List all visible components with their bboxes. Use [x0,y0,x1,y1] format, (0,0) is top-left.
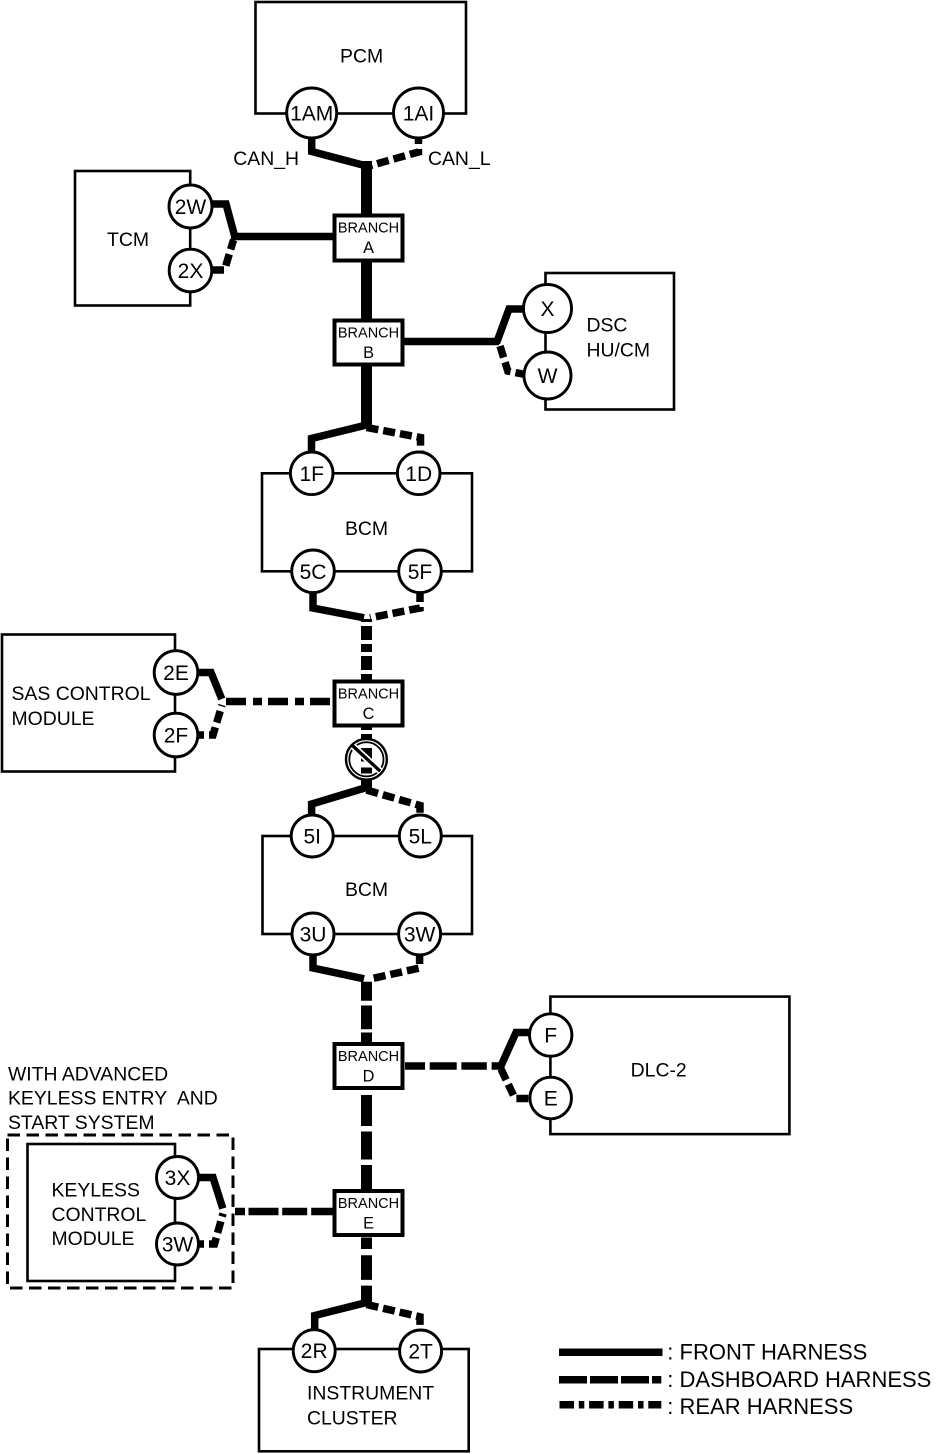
wire BRANCH D to DLC-2 junction dashboard harness [405,1062,503,1070]
connector 1F [290,452,333,495]
connector 2R [293,1330,335,1372]
wire fork to BCM 5I solid [312,788,367,819]
svg-text:2F: 2F [164,725,189,748]
connector E [530,1077,572,1119]
connector 2X [169,249,212,292]
svg-text:BRANCH: BRANCH [338,1049,399,1065]
svg-text:1D: 1D [405,463,432,486]
svg-text:MODULE: MODULE [52,1228,135,1250]
wire SAS 2F dashed to junction [192,705,222,735]
branch box A [335,216,403,261]
svg-text:HU/CM: HU/CM [587,340,651,362]
wire trunk dashboard harness BRANCH D to BRANCH E [361,1088,372,1191]
module box INSTRUMENT CLUSTER [259,1349,469,1451]
connector 1D [397,452,440,495]
svg-text:W: W [538,365,558,388]
svg-text:3U: 3U [300,924,327,947]
svg-text:DSC: DSC [587,315,628,337]
svg-text:: REAR HARNESS: : REAR HARNESS [667,1394,853,1419]
branch box C [335,682,403,726]
wire 5F down dashed to junction [370,590,420,618]
wire CAN_L dashed from 1AI to trunk [369,132,419,166]
wire main trunk front harness PCM to BCM [361,161,372,428]
connector X [524,285,572,333]
wire trunk rear harness BCM to no-connection symbol [361,619,372,791]
wire BRANCH B to DSC junction front harness [401,338,499,346]
wire DLC junction to F solid [500,1033,531,1069]
svg-text:PCM: PCM [340,45,383,67]
svg-text:3X: 3X [165,1167,191,1190]
wire trunk dashboard harness BCM to BRANCH D [361,980,372,1044]
svg-text:BRANCH: BRANCH [338,1196,399,1212]
wire keyless 3X solid to junction [192,1178,223,1209]
connector 5L [399,815,441,857]
svg-text:5F: 5F [408,561,433,584]
wire DSC junction to X solid [497,309,526,343]
svg-text:E: E [544,1088,558,1111]
wire fork to BCM 5L dashed [367,790,421,817]
svg-text:START SYSTEM: START SYSTEM [8,1112,155,1134]
svg-text:2E: 2E [163,662,189,685]
wire CAN_H solid from 1AM to trunk [312,130,367,166]
wire trunk dashboard harness BRANCH E to instrument cluster [361,1235,372,1305]
svg-text:D: D [363,1068,375,1086]
svg-text:: DASHBOARD HARNESS: : DASHBOARD HARNESS [667,1367,931,1392]
svg-text:1AM: 1AM [290,103,333,126]
dashed option box [8,1135,234,1288]
svg-text:A: A [363,239,374,257]
svg-text:BCM: BCM [345,518,388,540]
svg-text:X: X [540,298,554,321]
wire 3W down dashed to junction [371,952,420,979]
module box DLC-2 [550,997,789,1135]
svg-text:BRANCH: BRANCH [338,221,399,237]
module box BCM lower [263,836,473,934]
branch box D [335,1044,403,1088]
connector 2W [169,185,212,228]
wire fork to BCM 1D dashed [367,428,421,455]
svg-text:CAN_L: CAN_L [428,148,491,170]
svg-text:INSTRUMENT: INSTRUMENT [307,1383,434,1405]
connector 3U [292,913,334,955]
wire fork to 2R solid [315,1303,367,1333]
svg-text:CLUSTER: CLUSTER [307,1408,398,1430]
no-connection symbol [346,739,387,780]
branch box E [335,1191,403,1235]
wire fork to 2T dashed [367,1305,421,1333]
svg-text:BRANCH: BRANCH [338,687,399,703]
svg-text:KEYLESS ENTRY AND: KEYLESS ENTRY AND [8,1088,218,1110]
wire fork to BCM 1F solid [312,425,367,455]
connector 2T [400,1330,442,1372]
svg-text:5C: 5C [300,561,327,584]
wire keyless 3W dashed to junction [192,1214,223,1245]
svg-text:BCM: BCM [345,879,388,901]
connector 1AM [287,88,337,138]
svg-text:2W: 2W [175,196,207,219]
connector 5C [292,550,335,593]
connector F [530,1014,572,1056]
module box SAS CONTROL MODULE [2,635,175,772]
svg-text:3W: 3W [162,1234,194,1257]
connector W [524,352,571,399]
svg-text:F: F [544,1025,557,1048]
legend dashboard harness sample [559,1376,661,1384]
wire DLC junction to E dashed [501,1069,531,1099]
connector 5I [291,815,333,857]
svg-text:KEYLESS: KEYLESS [52,1180,140,1202]
connector 2F [154,713,198,757]
connector 1AI [394,88,444,138]
svg-text:SAS CONTROL: SAS CONTROL [12,683,151,705]
module box KEYLESS CONTROL MODULE [28,1144,176,1281]
svg-text:: FRONT HARNESS: : FRONT HARNESS [667,1340,867,1365]
wire TCM junction to BRANCH A front harness [231,233,336,241]
svg-text:1F: 1F [299,463,324,486]
module box TCM [75,171,190,306]
svg-text:2X: 2X [178,260,204,283]
svg-text:CAN_H: CAN_H [233,148,299,170]
svg-text:DLC-2: DLC-2 [631,1060,687,1082]
svg-text:1AI: 1AI [403,103,435,126]
svg-text:WITH ADVANCED: WITH ADVANCED [8,1064,168,1086]
wire SAS junction to BRANCH C rear harness [226,698,336,706]
svg-text:CONTROL: CONTROL [52,1204,147,1226]
module box PCM [256,2,467,114]
wire keyless junction to BRANCH E dashboard harness [235,1208,337,1216]
wire TCM 2X dashed to junction [212,240,234,270]
module box DSC HU/CM [546,273,675,410]
svg-text:3W: 3W [404,924,436,947]
svg-text:2R: 2R [301,1340,328,1363]
branch box B [335,321,403,365]
connector 5F [399,550,442,593]
svg-text:TCM: TCM [107,229,149,251]
svg-text:5I: 5I [303,826,321,849]
svg-text:B: B [363,344,374,362]
legend front harness sample [559,1349,663,1357]
wire 3U down solid to junction [313,952,364,979]
svg-text:C: C [363,705,375,723]
module box BCM upper [262,473,472,571]
svg-text:E: E [363,1215,374,1233]
svg-text:MODULE: MODULE [12,708,95,730]
svg-text:5L: 5L [409,826,432,849]
connector 3X [157,1157,199,1199]
connector 3W [399,913,441,955]
svg-text:2T: 2T [408,1341,433,1364]
connector 2E [154,651,198,695]
connector 3W keyless [157,1223,199,1265]
wire TCM 2W solid to junction [206,204,235,237]
svg-text:BRANCH: BRANCH [338,326,399,342]
wire 5C down solid to junction [313,590,364,618]
legend rear harness sample [560,1401,662,1409]
wire DSC junction to W dashed [500,346,525,375]
wire SAS 2E solid to junction [192,673,222,700]
